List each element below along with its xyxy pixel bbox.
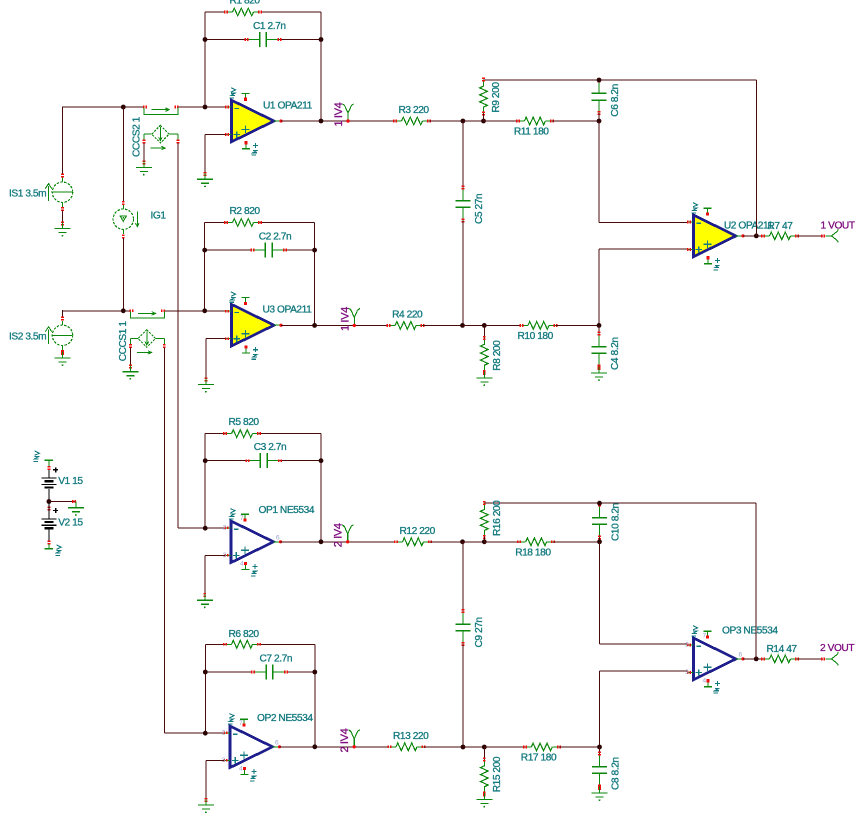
wire [205, 433, 321, 435]
wire [484, 541, 519, 543]
svg-text:7: 7 [239, 720, 243, 727]
junction [460, 539, 465, 544]
wire [62, 310, 64, 317]
junction [203, 526, 208, 531]
junction [461, 119, 466, 124]
ground [55, 222, 71, 237]
voltage pin 1 IV4 [339, 307, 360, 331]
wire [462, 542, 464, 611]
junction [754, 657, 759, 662]
wire [484, 502, 756, 504]
svg-text:2 IV4: 2 IV4 [339, 728, 351, 752]
wire [281, 541, 396, 543]
wire [205, 222, 315, 224]
junction [597, 119, 602, 124]
ground [476, 371, 492, 386]
svg-text:6: 6 [275, 739, 279, 746]
junction [202, 248, 207, 253]
wire [205, 135, 226, 173]
wire [462, 121, 464, 188]
svg-text:IS2 3.5m: IS2 3.5m [9, 332, 46, 343]
svg-text:C6 8.2n: C6 8.2n [610, 84, 621, 117]
wire [599, 747, 601, 754]
svg-text:R4 220: R4 220 [392, 309, 423, 320]
junction [319, 37, 324, 42]
wire [483, 537, 485, 542]
wire [743, 658, 763, 660]
ground [476, 792, 492, 807]
junction [203, 37, 208, 42]
junction [597, 501, 602, 506]
svg-text:V2 15: V2 15 [58, 518, 83, 529]
wire [62, 211, 64, 222]
junction [482, 539, 487, 544]
current source IS1 3.5m [9, 174, 73, 212]
wire [205, 555, 225, 593]
capacitor C5 27n [455, 186, 485, 224]
svg-text:U3 OPA211: U3 OPA211 [263, 305, 313, 316]
wire [204, 12, 206, 107]
svg-text:R17 180: R17 180 [521, 753, 557, 764]
svg-text:2 IV4: 2 IV4 [333, 523, 345, 547]
resistor R18 180 [515, 538, 555, 558]
capacitor C2 2.7n [250, 232, 291, 258]
wire [483, 747, 485, 760]
wire [204, 223, 206, 311]
svg-text:IG1: IG1 [151, 211, 167, 222]
junction [47, 499, 52, 504]
controlled source CCCS1 1 [118, 309, 166, 361]
wire [314, 223, 316, 326]
svg-text:C9 27n: C9 27n [474, 617, 485, 647]
svg-text:C10 8.2n: C10 8.2n [611, 503, 622, 541]
junction [319, 458, 324, 463]
svg-text:R8 200: R8 200 [492, 340, 503, 371]
wire [559, 746, 600, 748]
resistor R12 220 [394, 526, 436, 546]
junction [461, 745, 466, 750]
svg-text:4: 4 [239, 765, 243, 772]
wire [205, 671, 314, 673]
jumper V- [45, 541, 61, 556]
svg-text:V1 15: V1 15 [58, 476, 83, 487]
capacitor C7 2.7n [251, 654, 292, 680]
wire [755, 80, 757, 236]
svg-text:R14 47: R14 47 [767, 644, 798, 655]
svg-text:OP1 NE5534: OP1 NE5534 [259, 505, 315, 516]
resistor R10 180 [518, 322, 558, 342]
capacitor C9 27n [456, 609, 486, 647]
wire [463, 324, 485, 326]
wire [462, 644, 464, 747]
svg-text:6: 6 [276, 534, 280, 541]
resistor R17 180 [521, 743, 561, 763]
resistor R5 820 [223, 417, 261, 437]
ground [198, 378, 214, 393]
svg-text:U1 OPA211: U1 OPA211 [263, 101, 313, 112]
svg-text:1 IV4: 1 IV4 [339, 307, 351, 331]
capacitor C4 8.2n [592, 332, 622, 370]
wire [314, 644, 316, 747]
jumper V+ [33, 451, 53, 470]
wire [62, 106, 64, 173]
capacitor C10 8.2n [592, 503, 622, 541]
svg-text:6: 6 [739, 651, 743, 658]
svg-text:C7 2.7n: C7 2.7n [260, 654, 293, 665]
svg-text:4: 4 [240, 560, 244, 567]
junction [312, 670, 317, 675]
wire [599, 537, 601, 542]
resistor R8 200 [481, 336, 504, 374]
svg-text:R5 820: R5 820 [229, 417, 260, 428]
svg-text:1 VOUT: 1 VOUT [821, 221, 855, 232]
svg-text:C8 8.2n: C8 8.2n [611, 757, 622, 790]
wire [164, 310, 225, 312]
junction [312, 744, 317, 749]
wire [600, 542, 688, 644]
wire [599, 121, 688, 223]
junction [121, 105, 126, 110]
wire [204, 434, 206, 529]
wire [429, 120, 463, 122]
op-amp OP3 NE5534 [685, 626, 778, 693]
wire [755, 503, 757, 659]
resistor R15 200 [481, 756, 504, 795]
resistor R2 820 [224, 206, 262, 226]
svg-text:3: 3 [685, 669, 689, 676]
op-amp U2 OPA211 [687, 203, 774, 270]
svg-text:4: 4 [703, 678, 707, 685]
svg-text:1 IV4: 1 IV4 [333, 102, 345, 126]
junction [203, 105, 208, 110]
ground [197, 172, 213, 187]
svg-text:R18 180: R18 180 [515, 547, 551, 558]
junction [203, 670, 208, 675]
svg-text:CCCS1 1: CCCS1 1 [118, 321, 129, 362]
wire [122, 107, 124, 202]
current source IS2 3.5m [9, 317, 73, 355]
wire [163, 348, 165, 734]
wire [484, 79, 757, 81]
svg-text:C4 8.2n: C4 8.2n [610, 337, 621, 370]
svg-text:R11 180: R11 180 [514, 127, 549, 138]
capacitor C1 2.7n [245, 21, 286, 47]
wire [484, 120, 519, 122]
svg-text:R6 820: R6 820 [229, 629, 260, 640]
wire [320, 434, 322, 542]
wire [483, 114, 485, 121]
resistor R1 820 [224, 0, 262, 16]
wire [743, 235, 763, 237]
junction [482, 745, 487, 750]
wire [463, 541, 485, 543]
wire [430, 541, 463, 543]
ground [68, 500, 84, 516]
wire [129, 348, 131, 365]
wire [599, 249, 688, 325]
svg-text:R15 200: R15 200 [492, 756, 503, 792]
wire [205, 460, 321, 462]
svg-text:R1 820: R1 820 [230, 0, 261, 7]
voltage source V2 15 [41, 502, 83, 542]
ground [55, 351, 71, 366]
ground [198, 798, 214, 813]
wire [206, 339, 226, 378]
wire [281, 120, 395, 122]
wire [598, 113, 600, 121]
junction [481, 119, 486, 124]
svg-text:C3 2.7n: C3 2.7n [254, 442, 287, 453]
svg-text:R9 200: R9 200 [491, 82, 502, 113]
ground [197, 593, 213, 608]
resistor R3 220 [393, 105, 431, 125]
voltage pin 2 IV4 [339, 728, 360, 752]
wire [205, 643, 314, 645]
capacitor C8 8.2n [592, 752, 622, 790]
junction [460, 323, 465, 328]
wire [63, 310, 131, 312]
svg-text:R3 220: R3 220 [399, 105, 430, 116]
svg-text:C1 2.7n: C1 2.7n [253, 21, 286, 32]
junction [319, 539, 324, 544]
svg-text:OP2 NE5534: OP2 NE5534 [257, 713, 313, 724]
wire [484, 324, 520, 326]
svg-text:7: 7 [240, 515, 244, 522]
wire [205, 11, 321, 13]
wire [205, 39, 321, 41]
svg-text:2 VOUT: 2 VOUT [820, 643, 854, 654]
op-amp U1 OPA211 [225, 88, 313, 155]
svg-text:R12 220: R12 220 [400, 526, 436, 537]
wire [553, 541, 599, 543]
junction [482, 323, 487, 328]
junction [312, 248, 317, 253]
svg-text:U2 OPA211: U2 OPA211 [724, 221, 774, 232]
resistor R13 220 [388, 731, 430, 751]
voltage pin 1 IV4 [333, 102, 354, 126]
junction [319, 119, 324, 124]
ground [136, 160, 152, 175]
svg-text:IS1 3.5m: IS1 3.5m [9, 189, 46, 200]
wire [483, 325, 485, 338]
junction [312, 323, 317, 328]
wire [463, 746, 484, 748]
junction [597, 323, 602, 328]
svg-text:OP3 NE5534: OP3 NE5534 [722, 626, 778, 637]
wire [320, 12, 322, 121]
resistor R16 200 [481, 500, 504, 539]
ground [591, 366, 607, 381]
wire [178, 106, 226, 108]
wire [63, 106, 144, 108]
svg-text:2: 2 [685, 642, 689, 649]
resistor R11 180 [514, 117, 554, 137]
op-amp U3 OPA211 [225, 292, 312, 359]
wire [205, 249, 315, 251]
wire [204, 644, 206, 733]
svg-text:R2 820: R2 820 [230, 206, 261, 217]
wire [280, 746, 389, 748]
junction [597, 539, 602, 544]
wire [164, 732, 224, 734]
resistor R4 220 [387, 309, 425, 329]
wire [281, 324, 388, 326]
junction [597, 745, 602, 750]
junction [121, 308, 126, 313]
resistor R6 820 [223, 629, 261, 648]
svg-text:CCCS2 1: CCCS2 1 [132, 116, 143, 157]
output terminal 2 VOUT [820, 643, 854, 666]
svg-text:R7 47: R7 47 [768, 221, 794, 232]
svg-text:2: 2 [222, 730, 226, 737]
junction [597, 78, 602, 83]
wire [797, 658, 823, 660]
voltage pin 2 IV4 [333, 523, 354, 547]
wire [49, 501, 76, 503]
current source IG1 [113, 201, 166, 239]
svg-text:R13 220: R13 220 [393, 731, 429, 742]
wire [424, 746, 464, 748]
resistor R14 47 [761, 644, 799, 663]
op-amp OP2 NE5534 [222, 713, 314, 781]
junction [202, 308, 207, 313]
op-amp OP1 NE5534 [223, 505, 315, 576]
svg-text:R10 180: R10 180 [518, 331, 554, 342]
wire [600, 671, 688, 747]
wire [206, 760, 224, 798]
junction [203, 458, 208, 463]
junction [754, 234, 759, 239]
wire [462, 220, 464, 325]
wire [423, 324, 463, 326]
svg-text:R16 200: R16 200 [492, 500, 503, 536]
ground [592, 786, 608, 801]
wire [556, 324, 600, 326]
wire [122, 238, 124, 311]
resistor R9 200 [480, 78, 503, 116]
junction [203, 731, 208, 736]
capacitor C6 8.2n [592, 78, 622, 116]
ground [122, 365, 138, 380]
svg-text:C5 27n: C5 27n [474, 194, 485, 224]
wire [552, 120, 599, 122]
svg-text:2: 2 [223, 525, 227, 532]
controlled source CCCS2 1 [132, 106, 180, 157]
svg-text:7: 7 [703, 632, 707, 639]
wire [143, 143, 145, 160]
capacitor C3 2.7n [245, 442, 286, 468]
output terminal 1 VOUT [821, 221, 855, 243]
wire [463, 120, 484, 122]
resistor R7 47 [761, 221, 799, 240]
wire [484, 746, 525, 748]
wire [178, 527, 225, 529]
wire [177, 143, 179, 528]
wire [598, 325, 600, 333]
wire [797, 235, 823, 237]
svg-text:C2 2.7n: C2 2.7n [259, 232, 292, 243]
voltage source V1 15 [41, 467, 83, 501]
